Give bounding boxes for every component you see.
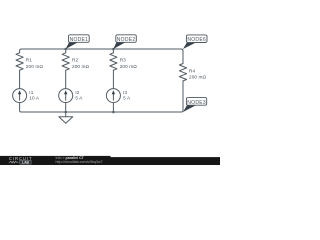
node NODE3 flag: [183, 98, 207, 112]
wire branch3 top: [112, 49, 114, 53]
svg-text:LAB: LAB: [22, 161, 30, 165]
svg-text:NODE6: NODE6: [187, 37, 206, 43]
svg-text:R1: R1: [26, 58, 32, 63]
wire R1 to I1: [19, 70, 21, 88]
node NODE2 flag: [113, 35, 136, 49]
resistor R3: [110, 53, 117, 70]
wire branch2 top: [65, 49, 67, 53]
svg-text:http://circuitlab.com/c/9kq3w7: http://circuitlab.com/c/9kq3w7: [56, 160, 103, 164]
footer info text: [56, 156, 103, 164]
resistor R2: [62, 53, 69, 70]
wire branch2 bottom: [65, 103, 67, 112]
svg-text:5 A: 5 A: [75, 96, 83, 101]
junction branch3-top: [112, 48, 115, 51]
node NODE6 flag: [183, 35, 207, 49]
svg-text:10 A: 10 A: [29, 96, 40, 101]
svg-text:NODE2: NODE2: [117, 37, 136, 43]
svg-text:5 A: 5 A: [123, 96, 131, 101]
wire R3 to I3: [112, 70, 114, 88]
resistor R4: [179, 64, 186, 81]
wire R2 to I2: [65, 70, 67, 88]
svg-text:200 mΩ: 200 mΩ: [189, 74, 207, 79]
svg-text:NODE3: NODE3: [187, 100, 206, 106]
svg-text:200 mΩ: 200 mΩ: [72, 64, 90, 69]
svg-text:I3: I3: [123, 90, 127, 95]
junction branch2-bottom: [64, 111, 67, 114]
footer bar left: [0, 156, 111, 165]
node NODE1 flag: [66, 35, 90, 49]
svg-text:NODE1: NODE1: [70, 37, 89, 43]
wire top rail: [20, 49, 183, 56]
svg-text:R2: R2: [72, 58, 78, 63]
wire branch4 top: [182, 56, 184, 64]
current source I3: [106, 89, 120, 103]
resistor R1: [16, 53, 23, 70]
svg-text:R4: R4: [189, 68, 195, 73]
ground: [59, 112, 73, 123]
footer bar right: [111, 157, 221, 165]
wire bottom rail: [20, 95, 183, 112]
logo CircuitLab: [9, 156, 33, 164]
svg-text:I2: I2: [75, 90, 79, 95]
junction branch2-top: [64, 48, 67, 51]
junction branch3-bottom: [112, 111, 115, 114]
current source I2: [59, 89, 73, 103]
svg-text:200 mΩ: 200 mΩ: [120, 64, 138, 69]
svg-text:I1: I1: [29, 90, 33, 95]
svg-text:R3: R3: [120, 58, 126, 63]
svg-text:200 mΩ: 200 mΩ: [26, 64, 44, 69]
wire branch4 bottom: [182, 81, 184, 95]
wire branch3 bottom: [112, 103, 114, 112]
current source I1: [13, 89, 27, 103]
